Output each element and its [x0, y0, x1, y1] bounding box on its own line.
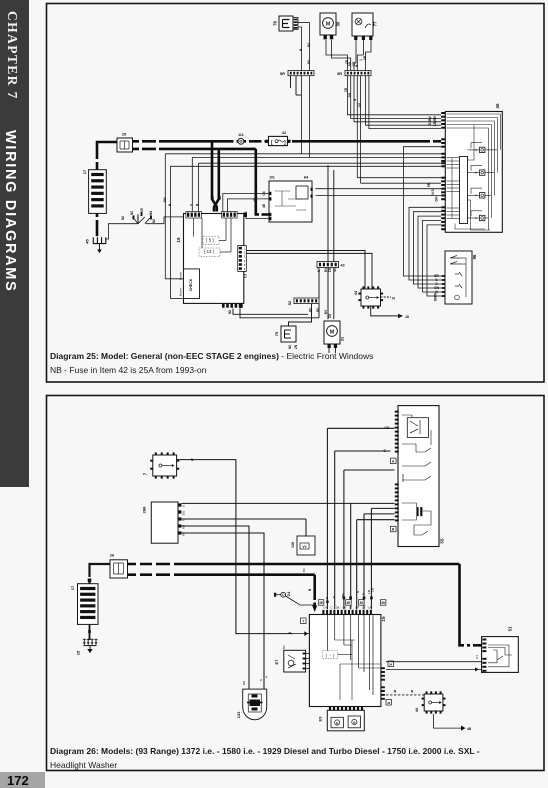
svg-text:Green: Green — [179, 272, 183, 281]
svg-text:NB: NB — [182, 525, 186, 529]
svg-text:ZG: ZG — [328, 313, 332, 318]
svg-text:T: T — [302, 619, 304, 623]
svg-text:N2: N2 — [152, 219, 156, 223]
svg-text:N: N — [191, 458, 194, 462]
svg-text:LR/GR: LR/GR — [401, 474, 405, 483]
svg-text:43: 43 — [333, 268, 337, 272]
svg-text:50c: 50c — [182, 510, 186, 515]
svg-text:15: 15 — [76, 650, 81, 655]
svg-text:101: 101 — [269, 176, 275, 180]
svg-text:18: 18 — [405, 315, 409, 319]
svg-text:19: 19 — [381, 616, 386, 622]
svg-text:N2: N2 — [309, 308, 313, 312]
svg-text:138: 138 — [291, 542, 295, 548]
svg-text:46: 46 — [495, 103, 500, 109]
svg-text:GB: GB — [358, 102, 362, 107]
svg-text:N: N — [265, 676, 269, 678]
svg-text:N S: N S — [431, 188, 435, 194]
svg-text:LB/BV: LB/BV — [433, 115, 437, 126]
svg-text:C: C — [332, 595, 336, 598]
svg-text:N: N — [325, 597, 329, 599]
svg-text:E9: E9 — [318, 716, 323, 722]
svg-text:G: G — [353, 721, 356, 725]
svg-text:{ 13 }: { 13 } — [204, 249, 215, 254]
svg-text:N: N — [411, 690, 414, 694]
svg-text:BV: BV — [324, 309, 328, 314]
svg-text:S: S — [182, 505, 186, 507]
svg-text:7: 7 — [143, 472, 148, 475]
svg-text:17: 17 — [70, 585, 75, 590]
svg-text:19: 19 — [176, 237, 181, 243]
svg-text:{ → }: { → } — [326, 653, 336, 658]
svg-text:DK: DK — [336, 606, 340, 610]
svg-text:S: S — [189, 204, 193, 206]
svg-text:{ 5 }: { 5 } — [206, 238, 214, 243]
svg-text:N: N — [392, 297, 395, 301]
svg-text:Brown: Brown — [179, 287, 183, 296]
svg-text:CHECK: CHECK — [189, 278, 193, 291]
svg-text:77: 77 — [373, 21, 378, 26]
svg-text:55: 55 — [440, 538, 445, 544]
svg-text:RV: RV — [182, 532, 186, 536]
svg-text:46L: 46L — [341, 592, 345, 597]
svg-text:45: 45 — [85, 239, 90, 244]
svg-text:OR: OR — [355, 606, 359, 610]
svg-text:GN: GN — [163, 197, 167, 202]
svg-text:ZG: ZG — [328, 267, 332, 272]
svg-text:M: M — [330, 329, 334, 335]
svg-text:75: 75 — [274, 331, 279, 336]
svg-text:C4: C4 — [475, 655, 479, 659]
svg-text:BV: BV — [302, 568, 306, 572]
svg-text:C4: C4 — [262, 191, 266, 195]
svg-text:BB: BB — [348, 92, 352, 97]
svg-text:L4: L4 — [362, 606, 365, 610]
svg-text:GN/N: GN/N — [434, 293, 438, 302]
svg-text:C8: C8 — [384, 426, 389, 430]
svg-text:BR: BR — [242, 680, 246, 685]
svg-text:133: 133 — [236, 711, 241, 718]
svg-text:5R: 5R — [363, 55, 367, 60]
svg-text:C: C — [330, 606, 332, 610]
svg-text:96: 96 — [472, 254, 477, 259]
svg-text:N: N — [308, 588, 312, 591]
svg-text:17: 17 — [82, 169, 87, 174]
svg-text:26: 26 — [110, 553, 115, 558]
svg-text:C: C — [383, 449, 386, 453]
svg-text:42: 42 — [282, 131, 286, 135]
svg-text:98: 98 — [381, 601, 385, 605]
svg-text:N4: N4 — [149, 211, 153, 215]
svg-text:36: 36 — [359, 601, 363, 605]
svg-text:OB: OB — [342, 606, 346, 610]
svg-text:4E: 4E — [346, 601, 350, 605]
svg-text:46: 46 — [387, 701, 391, 705]
svg-text:78: 78 — [273, 21, 278, 26]
svg-text:N: N — [259, 679, 263, 681]
svg-text:S: S — [356, 591, 360, 593]
svg-text:5R: 5R — [427, 182, 431, 187]
svg-text:G: G — [336, 722, 339, 726]
svg-text:N2: N2 — [228, 310, 232, 314]
svg-text:M: M — [326, 21, 330, 27]
svg-text:N: N — [182, 519, 186, 521]
svg-text:5R: 5R — [280, 71, 285, 76]
svg-text:111: 111 — [287, 591, 291, 596]
svg-text:E7: E7 — [274, 659, 279, 665]
svg-text:4B: 4B — [218, 195, 222, 200]
svg-text:29: 29 — [122, 132, 127, 137]
svg-text:25: 25 — [140, 208, 144, 212]
svg-text:4B: 4B — [253, 197, 257, 202]
svg-text:S: S — [288, 631, 292, 634]
svg-text:GN: GN — [435, 196, 439, 202]
svg-text:2N: 2N — [294, 344, 298, 349]
svg-text:3E: 3E — [319, 601, 323, 605]
svg-text:31: 31 — [340, 336, 345, 341]
svg-text:N2: N2 — [121, 216, 125, 220]
svg-text:4R: 4R — [211, 195, 215, 200]
svg-text:111: 111 — [238, 133, 244, 137]
svg-text:ZB: ZB — [344, 87, 348, 92]
svg-text:34: 34 — [389, 662, 393, 666]
svg-text:N2: N2 — [316, 308, 320, 312]
svg-text:4B: 4B — [262, 203, 266, 208]
svg-text:(T: (T — [349, 606, 352, 610]
svg-text:52: 52 — [287, 300, 292, 305]
svg-text:30: 30 — [336, 21, 341, 26]
svg-text:44: 44 — [354, 290, 358, 295]
svg-text:C4: C4 — [323, 606, 327, 610]
svg-text:51: 51 — [508, 626, 513, 631]
svg-text:N: N — [394, 690, 397, 694]
svg-text:N2: N2 — [288, 345, 292, 349]
svg-text:N2: N2 — [307, 43, 311, 47]
svg-text:288: 288 — [142, 506, 147, 513]
svg-text:44: 44 — [415, 707, 419, 712]
svg-text:C3: C3 — [243, 274, 247, 278]
svg-text:LA: LA — [368, 606, 371, 610]
svg-text:N2: N2 — [130, 211, 134, 215]
svg-text:7L/BV: 7L/BV — [428, 116, 432, 126]
svg-text:A: A — [348, 595, 352, 598]
svg-text:N2: N2 — [307, 60, 311, 64]
svg-text:N: N — [362, 593, 366, 595]
svg-text:43: 43 — [340, 264, 344, 268]
svg-text:3R: 3R — [337, 71, 342, 76]
svg-text:48: 48 — [467, 727, 471, 731]
svg-text:64: 64 — [304, 175, 309, 180]
svg-text:RV: RV — [282, 645, 286, 649]
svg-text:N2: N2 — [317, 268, 321, 272]
